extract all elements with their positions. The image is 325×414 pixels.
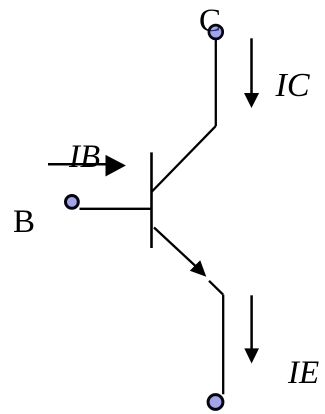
node E terminal [208,395,223,410]
wire emitter vertical [222,295,224,395]
wire emitter elbow [209,281,223,295]
current arrow IC [244,38,259,108]
transistor Q1 base bar [150,152,153,248]
svg-text:IB: IB [68,139,100,175]
wire base [80,208,152,210]
node C terminal [209,25,223,39]
wire collector vertical [215,40,217,126]
svg-text:IC: IC [275,67,310,104]
node B terminal [66,196,79,209]
current arrow IB [48,155,126,177]
current arrow IE [244,295,259,363]
svg-text:IE: IE [287,355,319,391]
wire collector diagonal [151,126,216,193]
svg-text:B: B [13,204,35,240]
transistor Q1 emitter arrow [154,228,206,277]
